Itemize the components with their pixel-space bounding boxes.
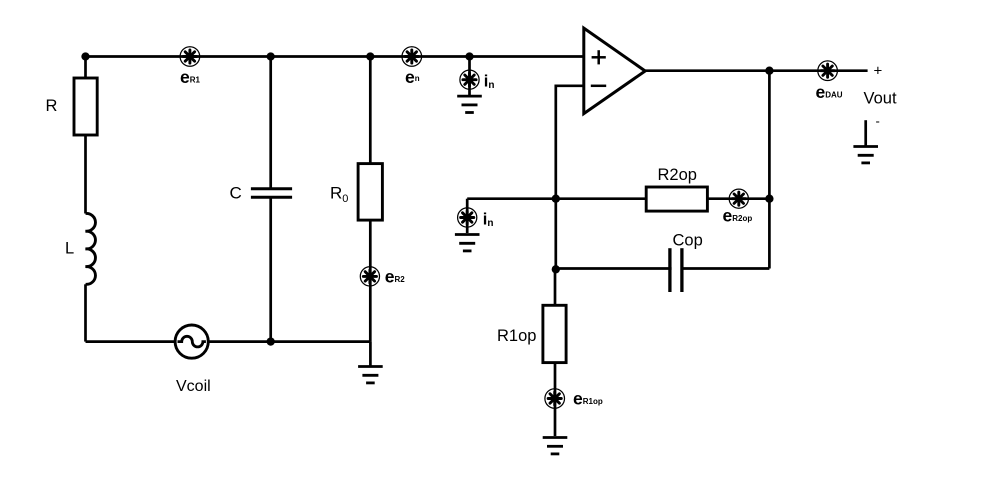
svg-text:eR2: eR2 (385, 267, 406, 287)
node Cop-left junction (552, 265, 560, 273)
wire top rail from node A to op-amp + input (86, 55, 584, 58)
svg-text:Vout: Vout (864, 90, 897, 108)
svg-text:-: - (876, 114, 880, 129)
node R0-top junction (366, 52, 374, 60)
wire in2 stub (466, 199, 469, 233)
resistor R0 (358, 164, 382, 221)
ground at Vout (853, 147, 878, 163)
node A top-left junction (81, 52, 89, 60)
svg-text:R: R (46, 97, 58, 115)
svg-text:C: C (230, 184, 242, 203)
wire Cop rail (556, 267, 770, 270)
svg-text:eR1: eR1 (180, 67, 201, 87)
node C-bottom junction (267, 337, 275, 345)
source Vcoil (175, 325, 208, 358)
wire output rail (645, 69, 867, 72)
svg-text:eR1op: eR1op (573, 389, 603, 409)
capacitor Cop (670, 248, 682, 292)
node output junction (765, 67, 773, 75)
svg-text:R2op: R2op (658, 166, 697, 184)
wire output vertical (768, 71, 771, 269)
node in1 junction (465, 52, 473, 60)
ground under in2 (455, 235, 480, 251)
wire inverting input (556, 86, 584, 269)
noise source in1 (460, 70, 479, 89)
ground under R1op (543, 438, 568, 454)
noise source eR2 (360, 267, 379, 286)
wire bottom rail (86, 340, 371, 343)
wire L to bottom rail (84, 284, 87, 341)
op-amp plus (592, 50, 606, 64)
op-amp minus (591, 85, 606, 88)
svg-text:+: + (874, 63, 883, 80)
resistor R (74, 78, 97, 135)
capacitor C (251, 189, 292, 198)
wire R branch vertical (84, 57, 87, 214)
svg-text:en: en (405, 67, 420, 87)
wire R0 branch vertical (369, 57, 372, 342)
svg-text:R0: R0 (330, 184, 348, 206)
wire R0 ground stem (369, 342, 372, 366)
svg-text:R1op: R1op (497, 327, 536, 345)
ground under R0 (358, 367, 383, 383)
node inverting-lower junction (552, 195, 560, 203)
svg-text:in: in (483, 211, 494, 230)
wire in1 stub (468, 57, 471, 96)
inductor L (86, 213, 96, 284)
resistor R2op (646, 187, 707, 211)
node C-top junction (267, 52, 275, 60)
wire feedback lower rail (467, 197, 769, 200)
svg-text:Cop: Cop (673, 232, 703, 250)
svg-text:eDAU: eDAU (816, 82, 843, 102)
wire Vout ground stem (864, 120, 867, 145)
noise source eR1 (180, 47, 200, 67)
svg-text:in: in (484, 73, 495, 92)
resistor R1op (543, 305, 566, 362)
node feedback-right junction (765, 195, 773, 203)
wire R1op branch (554, 269, 557, 436)
noise source in2 (458, 208, 477, 227)
svg-text:Vcoil: Vcoil (176, 378, 211, 395)
noise source eR2op (729, 189, 748, 208)
noise source eR1op (545, 389, 565, 409)
noise source eDAU (818, 61, 838, 81)
svg-text:L: L (65, 240, 74, 258)
op-amp U1 (584, 28, 645, 114)
noise source en (402, 47, 422, 67)
ground under in1 (457, 96, 482, 112)
wire C branch vertical (269, 57, 272, 342)
